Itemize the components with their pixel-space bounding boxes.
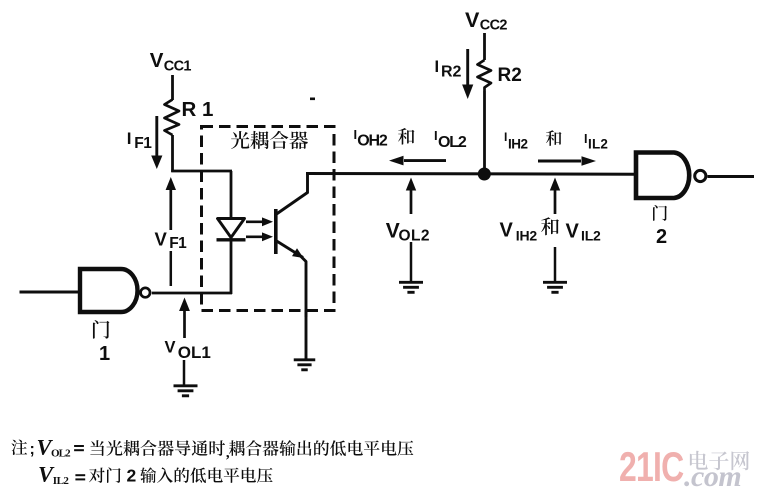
current arrow IIH2 IIL2 rightward — [538, 156, 596, 166]
svg-text:OL1: OL1 — [178, 343, 211, 362]
svg-text:2: 2 — [656, 226, 667, 248]
svg-text:I: I — [127, 129, 132, 148]
power rail label VCC2 — [465, 8, 507, 34]
current arrow IR2 — [462, 49, 473, 99]
svg-text:R2: R2 — [441, 63, 462, 80]
wire gate2 output — [708, 175, 755, 178]
voltage arrow VIH2 VIL2 — [550, 178, 560, 215]
wire junction to LED anode — [171, 170, 232, 173]
svg-text:IL2: IL2 — [588, 137, 608, 152]
wire R2 to node — [483, 91, 486, 171]
nand gate U3 gate 2 — [636, 153, 706, 199]
ground below emitter — [294, 360, 316, 370]
ground below VOL2 — [399, 282, 423, 292]
optocoupler U2 dashed box — [202, 127, 335, 311]
note line 2 — [38, 462, 273, 488]
voltage arrow VF1 — [166, 177, 176, 230]
svg-text:V: V — [566, 221, 580, 243]
svg-text:F1: F1 — [134, 135, 152, 152]
wire VCC2 stem — [483, 33, 486, 60]
svg-text:V: V — [465, 8, 480, 32]
svg-text:2: 2 — [127, 466, 137, 486]
nand gate U1 gate 1 — [80, 269, 150, 312]
svg-text:F1: F1 — [169, 235, 187, 252]
label men gate2 — [653, 205, 667, 221]
ground below VIH2 — [543, 282, 567, 292]
wire gate1 output to coupler — [152, 292, 232, 295]
svg-text:;: ; — [30, 441, 35, 458]
label gate1 number 1 — [99, 343, 110, 365]
wire gate1 input — [20, 291, 79, 294]
svg-text:I: I — [435, 58, 440, 76]
wire R1 to junction — [171, 135, 174, 172]
svg-text:V: V — [155, 229, 168, 250]
wire emitter to ground — [305, 310, 308, 359]
svg-text:OL2: OL2 — [51, 448, 71, 460]
label VOL1 — [165, 339, 211, 363]
svg-text:IL2: IL2 — [581, 228, 601, 244]
wire VOL1 stem — [183, 360, 186, 385]
label IOH2 and IOL2 — [354, 127, 467, 151]
svg-text:,: , — [226, 445, 230, 461]
svg-text:R 1: R 1 — [182, 98, 214, 121]
svg-text:CC1: CC1 — [164, 59, 192, 75]
ground below VOL1 — [174, 386, 198, 396]
svg-text:1: 1 — [99, 343, 110, 365]
phototransistor Q1 — [276, 173, 308, 317]
label optocoupler text — [231, 131, 308, 149]
svg-text:.com: .com — [684, 460, 741, 493]
wire VOL2 stem — [410, 242, 413, 282]
svg-text:21IC: 21IC — [619, 443, 683, 490]
wire VCC1 stem — [171, 75, 174, 100]
label R1 value — [182, 98, 214, 121]
voltage arrow VOL1 — [179, 298, 190, 339]
svg-text:IL2: IL2 — [53, 475, 70, 487]
label men gate1 — [93, 320, 109, 339]
current arrow IOH2 IOL2 leftward — [389, 156, 446, 166]
power rail label VCC1 — [150, 49, 192, 75]
wire LED anode stem — [230, 171, 233, 219]
logo 21IC dot com watermark — [619, 443, 749, 493]
label VF1 — [155, 229, 188, 253]
voltage arrow VOL2 — [406, 178, 416, 215]
light arrow lower — [246, 232, 273, 241]
wire collector to node to gate2 — [306, 172, 636, 176]
svg-text:OH2: OH2 — [357, 133, 388, 150]
wire VF1 lower stem — [170, 251, 173, 286]
resistor R1 — [165, 100, 180, 136]
wire LED cathode stem — [230, 241, 233, 294]
svg-text:OL2: OL2 — [399, 228, 430, 245]
svg-text:I: I — [504, 130, 507, 144]
svg-text:V: V — [500, 220, 514, 242]
svg-text:V: V — [165, 339, 176, 357]
svg-text:IH2: IH2 — [508, 136, 528, 151]
svg-text:I: I — [584, 132, 587, 146]
label IIH2 and IIL2 — [504, 130, 608, 152]
svg-text:IH2: IH2 — [516, 227, 538, 243]
label gate2 number 2 — [656, 226, 667, 248]
light arrow upper — [246, 217, 273, 226]
current arrow IF1 — [151, 116, 162, 169]
LED D1 — [217, 219, 246, 240]
svg-text:OL2: OL2 — [438, 134, 467, 151]
svg-text:CC2: CC2 — [480, 18, 508, 34]
stray mark — [310, 98, 315, 101]
label IF1 — [127, 129, 152, 152]
label IR2 — [435, 58, 462, 80]
resistor R2 — [478, 60, 492, 91]
label VIH2 and VIL2 — [500, 217, 602, 243]
note line 1 — [11, 435, 413, 462]
node junction dot — [478, 168, 491, 181]
wire VIH2 stem — [554, 247, 557, 282]
svg-text:V: V — [150, 49, 164, 72]
svg-text:R2: R2 — [498, 65, 522, 86]
label R2 value — [498, 65, 522, 86]
label VOL2 — [386, 219, 430, 244]
